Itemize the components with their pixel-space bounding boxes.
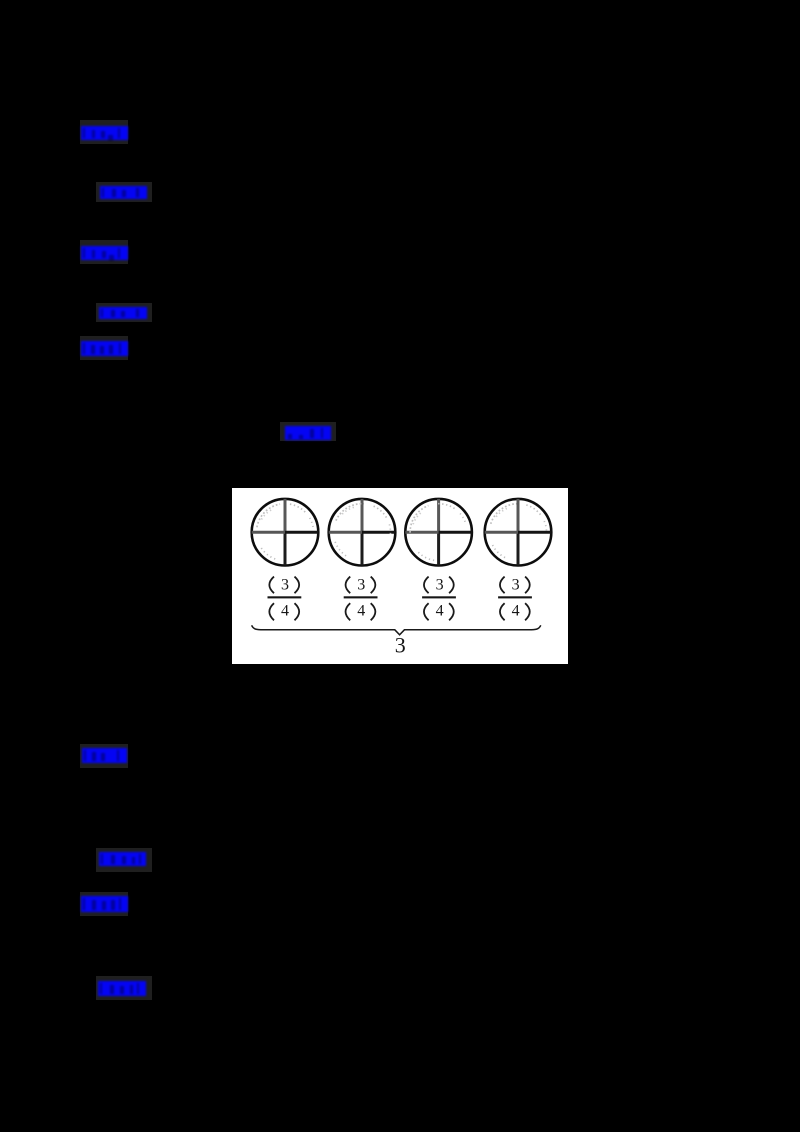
circle 1	[252, 499, 319, 566]
answer link 1 (highlighted text blob)	[80, 120, 128, 144]
answer link 8	[96, 848, 152, 872]
answer link 2	[96, 182, 152, 202]
answer link 4	[96, 303, 152, 322]
circle 3	[405, 499, 472, 566]
fraction 3	[422, 577, 456, 621]
answer link 6	[280, 422, 336, 441]
circle 2	[329, 499, 396, 566]
figure: white image box	[232, 488, 568, 664]
answer link 5	[80, 336, 128, 360]
answer link 9	[80, 892, 128, 916]
answer link 7	[80, 744, 128, 768]
underbrace	[252, 625, 541, 635]
fraction 1	[268, 577, 302, 621]
answer link 10	[96, 976, 152, 1000]
fraction 2	[344, 577, 378, 621]
fraction 4	[498, 577, 532, 621]
answer link 3	[80, 240, 128, 264]
circle 4	[485, 499, 552, 566]
svg-text:3: 3	[395, 633, 406, 658]
